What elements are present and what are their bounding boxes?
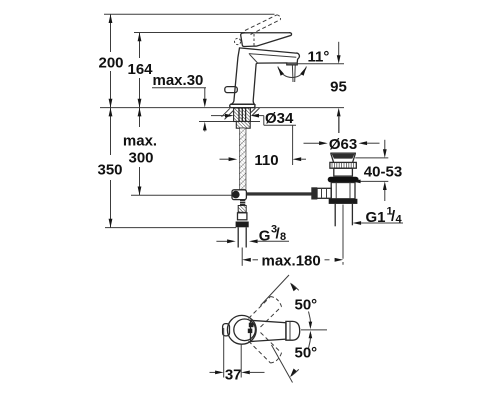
bottom view lever raised 50 dashed xyxy=(249,297,282,328)
reference line spout outlet xyxy=(296,63,344,65)
dimension 40-53 xyxy=(352,140,402,201)
reference line hose end xyxy=(131,194,236,196)
pop-up waste plug top xyxy=(330,153,356,158)
dimension Ø63 xyxy=(304,136,380,153)
deck hatching left xyxy=(222,108,234,119)
horizontal pop-up rod xyxy=(246,193,311,196)
svg-text:8: 8 xyxy=(280,231,286,243)
svg-text:11°: 11° xyxy=(308,49,330,66)
waste bowl sides xyxy=(331,153,356,162)
svg-text:max.30: max.30 xyxy=(153,72,204,89)
svg-text:Ø63: Ø63 xyxy=(329,136,357,153)
supply pipe tube xyxy=(238,227,246,247)
supply pipe nut G3/8 xyxy=(236,222,249,228)
dimension 37 xyxy=(210,328,265,384)
dimension 200 xyxy=(98,14,123,107)
waste rubber seal xyxy=(328,177,359,183)
svg-text:300: 300 xyxy=(128,150,153,167)
svg-text:4: 4 xyxy=(396,214,403,226)
reference line deck surface xyxy=(100,107,344,109)
bottom view horizontal reference xyxy=(301,329,327,331)
lever raised position dashed xyxy=(245,15,281,35)
supply pipe hatched section xyxy=(238,206,246,213)
shank nut below deck xyxy=(236,122,250,129)
dimension arrow Ø34 callout xyxy=(211,110,296,165)
flexible hose xyxy=(240,128,246,189)
dimension max.300 xyxy=(123,108,157,196)
reference line top of lever xyxy=(134,32,245,34)
svg-text:200: 200 xyxy=(98,55,123,72)
label G3/8 xyxy=(216,224,289,245)
waste knurled flange xyxy=(330,162,356,168)
svg-text:95: 95 xyxy=(330,79,347,96)
bottom view pull rod tab xyxy=(223,324,230,336)
waste centerline lower xyxy=(342,205,344,265)
faucet body xyxy=(231,48,300,105)
dimension 95 xyxy=(330,42,347,133)
svg-text:164: 164 xyxy=(127,61,153,78)
dimension 350 xyxy=(97,108,122,228)
svg-text:37: 37 xyxy=(225,367,242,384)
bottom view lever bar xyxy=(251,320,287,341)
reference line supply pipe end xyxy=(105,227,236,229)
aerator swivel arc xyxy=(278,67,307,78)
dimension max.30 deck thickness xyxy=(152,72,207,132)
bottom view upper 50 leader xyxy=(261,275,290,306)
bottom view indicator dots xyxy=(248,323,254,333)
deck hatching right xyxy=(251,108,260,116)
waste tailpiece xyxy=(335,204,352,226)
reference line top of raised lever xyxy=(104,13,275,15)
waste rod socket xyxy=(311,187,331,199)
bottom view lever end cap xyxy=(286,321,300,340)
svg-text:40-53: 40-53 xyxy=(364,164,402,181)
waste bottom nut xyxy=(329,199,358,204)
dimension max.180 xyxy=(242,252,343,269)
upper 50 degree arc xyxy=(290,283,312,330)
lower 50 degree arc xyxy=(290,331,312,378)
svg-text:G: G xyxy=(259,228,271,245)
svg-text:max.180: max.180 xyxy=(262,252,321,269)
bottom view escutcheon circle xyxy=(227,315,256,344)
threaded shank xyxy=(234,108,251,122)
svg-text:350: 350 xyxy=(97,162,122,179)
waste centerline upper xyxy=(338,116,340,133)
pop-up rod ball fitting xyxy=(232,190,246,200)
svg-text:110: 110 xyxy=(254,152,278,169)
svg-text:Ø34: Ø34 xyxy=(265,110,294,127)
bottom view lower 50 leader xyxy=(272,345,293,383)
lever handle xyxy=(235,33,292,47)
bottom view handle base circle xyxy=(234,319,256,341)
water stream xyxy=(292,65,295,82)
dimension 164 xyxy=(127,33,153,108)
waste neck xyxy=(334,168,353,176)
supply pipe axis extension xyxy=(241,248,243,266)
supply pipe collar xyxy=(238,213,247,220)
svg-text:max.: max. xyxy=(123,133,157,150)
svg-text:50°: 50° xyxy=(295,345,318,362)
bottom view lever lowered 50 dashed xyxy=(249,333,282,364)
reference line deck underside xyxy=(199,121,260,123)
pull rod knob on body xyxy=(225,87,238,93)
waste body xyxy=(331,183,355,199)
label G1 1/4 xyxy=(353,206,404,227)
svg-text:G1: G1 xyxy=(366,209,386,226)
svg-text:50°: 50° xyxy=(295,297,318,314)
base plate xyxy=(230,104,255,107)
dimension 110 xyxy=(220,152,307,169)
supply pipe threaded nipple xyxy=(240,201,245,205)
